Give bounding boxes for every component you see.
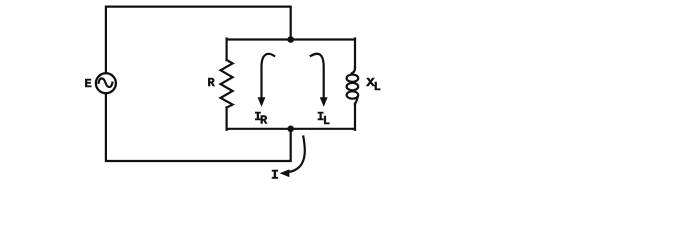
AC source sine wave [99, 78, 113, 87]
wire inner box top edge [227, 38, 355, 40]
arrowhead IR [258, 97, 266, 107]
wire inner box bottom edge [227, 128, 355, 130]
svg-text:E: E [85, 77, 92, 91]
inductor XL coil ring 3 [347, 91, 359, 98]
svg-text:L: L [323, 114, 330, 128]
node junction dot bottom [287, 126, 294, 133]
arrow I curved shaft [289, 137, 305, 172]
wire bottom loop: source bottom to inner box bottom [106, 94, 291, 162]
inductor XL coil exit hook [355, 97, 358, 104]
svg-text:R: R [208, 76, 216, 90]
wire inner box left stubs [226, 39, 228, 130]
arrow IL curved shaft [311, 54, 324, 98]
svg-text:I: I [271, 168, 279, 183]
resistor R zigzag [221, 60, 233, 108]
svg-text:R: R [260, 114, 268, 128]
arrowhead IL [320, 97, 328, 107]
arrowhead I [280, 169, 290, 177]
inductor XL coil ring 2 [347, 83, 359, 90]
AC source E circle [96, 73, 116, 93]
node junction dot top [287, 36, 294, 43]
wire inner box right stubs [354, 39, 356, 130]
svg-text:L: L [374, 80, 381, 94]
wire top loop: source top to inner box top [106, 7, 291, 73]
inductor XL coil entry hook [352, 68, 355, 73]
arrow IR curved shaft [262, 54, 275, 98]
inductor XL coil ring 1 [347, 75, 359, 82]
